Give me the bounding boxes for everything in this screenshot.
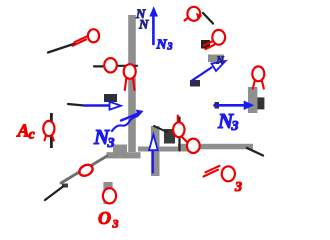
svg-text:O: O [98, 208, 111, 228]
svg-text:3: 3 [231, 119, 239, 134]
svg-text:N: N [216, 56, 225, 67]
svg-text:N: N [156, 37, 168, 52]
svg-text:3: 3 [112, 217, 119, 231]
svg-text:c: c [29, 128, 36, 143]
svg-text:3: 3 [107, 136, 115, 151]
svg-text:N: N [138, 17, 149, 32]
svg-text:3: 3 [167, 42, 173, 53]
svg-text:3: 3 [234, 180, 242, 195]
